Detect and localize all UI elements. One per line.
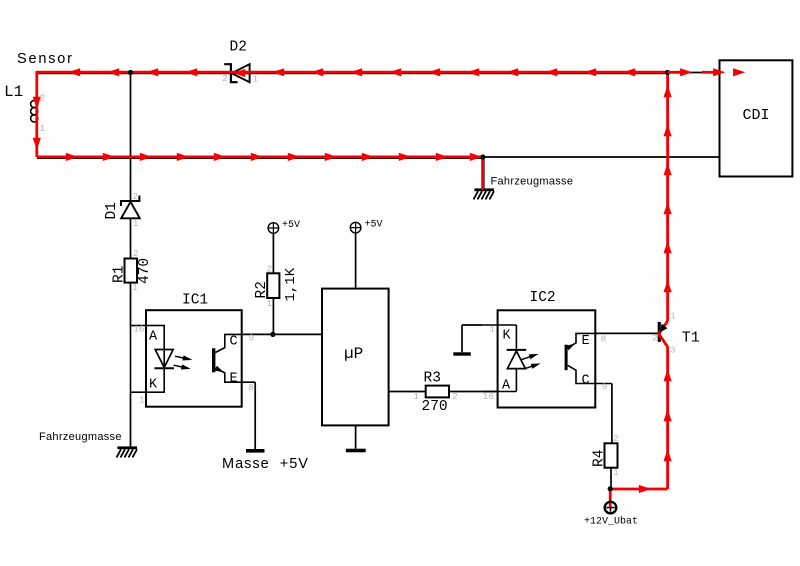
svg-text:C: C xyxy=(582,374,590,389)
svg-text:C: C xyxy=(230,335,238,350)
resistor R4 xyxy=(592,433,620,478)
svg-text:R4: R4 xyxy=(592,450,608,467)
wire black: R3 to IC2 pin A xyxy=(449,391,498,393)
current arrows: into CDI xyxy=(668,68,746,76)
svg-text:Sensor: Sensor xyxy=(17,51,74,67)
current arrows: +12V feed (rightward) xyxy=(639,485,651,493)
svg-text:2: 2 xyxy=(613,433,619,444)
svg-text:1: 1 xyxy=(133,218,139,229)
wire black: IC1 C to uP xyxy=(243,333,322,335)
svg-text:D2: D2 xyxy=(230,40,247,56)
wire black: IC1 pin K to ground xyxy=(130,392,132,446)
node: R2 / IC1 C junction xyxy=(270,332,275,337)
node: top D1 junction xyxy=(128,70,133,75)
inductor L1 xyxy=(4,83,46,134)
wire black: sensor top wire underlay xyxy=(37,73,668,75)
wire black: ground drop underlay xyxy=(483,158,485,189)
wire black: uP to R3 xyxy=(389,391,426,393)
svg-text:270: 270 xyxy=(422,399,448,415)
wire black: top to D1 xyxy=(130,73,132,202)
svg-text:CDI: CDI xyxy=(743,107,770,124)
wire black: R4 to +12V node xyxy=(610,468,612,489)
svg-text:E: E xyxy=(230,372,238,387)
svg-text:16: 16 xyxy=(483,391,495,402)
svg-text:A: A xyxy=(502,379,511,394)
transistor T1 xyxy=(652,311,700,356)
current arrows: left vertical (downward) xyxy=(33,97,41,150)
svg-text:470: 470 xyxy=(137,258,153,284)
svg-text:E: E xyxy=(582,334,590,349)
svg-text:1: 1 xyxy=(413,391,419,402)
wire black: Fahrzeugmasse junction to CDI xyxy=(483,156,720,158)
svg-text:8: 8 xyxy=(248,382,254,393)
ground Fahrzeugmasse (IC1 K) xyxy=(39,431,137,457)
resistor R2 1,1K xyxy=(254,264,299,310)
svg-text:A: A xyxy=(149,330,158,345)
svg-text:Fahrzeugmasse: Fahrzeugmasse xyxy=(491,176,574,188)
node: top right junction xyxy=(665,70,670,75)
svg-text:8: 8 xyxy=(601,334,607,345)
wire black: sensor bottom wire underlay xyxy=(37,157,483,159)
svg-text:2: 2 xyxy=(133,191,139,202)
node: Fahrzeugmasse junction xyxy=(480,154,485,159)
supply +5V (left) xyxy=(268,220,300,233)
svg-text:R3: R3 xyxy=(424,371,441,387)
resistor R3 270 xyxy=(413,371,458,416)
svg-text:IC1: IC1 xyxy=(182,293,208,309)
CDI box xyxy=(720,60,793,176)
svg-text:2: 2 xyxy=(267,264,273,275)
supply +12V_Ubat circle outline xyxy=(605,502,617,514)
svg-text:K: K xyxy=(149,378,158,393)
supply +5V (uP) xyxy=(350,220,382,233)
svg-text:R1: R1 xyxy=(112,266,128,283)
svg-text:T1: T1 xyxy=(682,330,700,347)
resistor R1 470 xyxy=(112,248,154,293)
wire red: right vertical upper (to T1) xyxy=(659,73,668,334)
wire red: sensor top wire xyxy=(37,71,668,74)
svg-text:µP: µP xyxy=(344,345,363,363)
wire red: drop to Fahrzeugmasse xyxy=(481,157,484,190)
wire red: left vertical through L1 xyxy=(35,71,38,157)
LED inside IC2 xyxy=(507,350,542,369)
svg-text:2: 2 xyxy=(133,248,139,259)
svg-text:1: 1 xyxy=(253,74,259,85)
wire black: R1 to IC1 pin A xyxy=(130,283,132,326)
wire black: top junction to CDI xyxy=(668,72,720,74)
svg-text:1: 1 xyxy=(613,467,619,478)
svg-text:IC2: IC2 xyxy=(530,290,556,306)
ground (IC1 E, Masse) xyxy=(246,449,265,453)
svg-text:9: 9 xyxy=(249,333,255,344)
phototransistor inside IC1 xyxy=(212,333,255,394)
wire black: IC2 C to R4 xyxy=(611,384,613,444)
ground (uP) xyxy=(346,449,366,453)
optocoupler IC2 xyxy=(483,290,596,408)
svg-text:1: 1 xyxy=(40,123,46,134)
label Masse +5V xyxy=(222,456,309,472)
current arrows: top wire (leftward) xyxy=(68,68,635,77)
svg-text:R2: R2 xyxy=(254,281,270,298)
current arrows: right vertical (upward) xyxy=(664,85,672,461)
wire black: IC1 E to Masse ground xyxy=(254,382,256,449)
supply +12V_Ubat xyxy=(584,502,638,528)
wire red: right vertical lower (from T1 to +12V) xyxy=(610,334,667,508)
LED inside IC1 xyxy=(155,350,193,372)
svg-text:D1: D1 xyxy=(104,202,120,219)
svg-text:1: 1 xyxy=(670,311,676,322)
svg-text:Fahrzeugmasse: Fahrzeugmasse xyxy=(39,431,122,443)
svg-text:2: 2 xyxy=(222,73,228,84)
diode D2 (zener) xyxy=(222,40,259,85)
diode D1 (zener) xyxy=(104,191,140,229)
ground Fahrzeugmasse (sensor return) xyxy=(474,176,574,200)
wire black: D1 to R1 xyxy=(130,218,132,258)
svg-text:1: 1 xyxy=(267,298,273,309)
phototransistor inside IC2 xyxy=(565,333,612,392)
svg-text:Masse +5V: Masse +5V xyxy=(222,456,309,472)
svg-text:16: 16 xyxy=(133,324,145,335)
wire black: IC2 pin K to ground xyxy=(462,325,483,352)
node: +12V junction xyxy=(608,486,613,491)
wire black: uP bottom to ground xyxy=(355,425,357,448)
wire black: +5V to R2 xyxy=(272,234,274,274)
svg-text:1: 1 xyxy=(139,395,145,406)
svg-text:9: 9 xyxy=(602,382,608,393)
transistor T1 emitter arrowhead xyxy=(660,324,668,333)
svg-text:2: 2 xyxy=(652,333,658,344)
svg-text:+5V: +5V xyxy=(282,220,300,231)
current arrows: bottom wire (rightward) xyxy=(66,153,482,161)
svg-text:1: 1 xyxy=(132,282,138,293)
wire black: R2 to node xyxy=(272,298,274,334)
svg-text:3: 3 xyxy=(670,345,676,356)
svg-text:+5V: +5V xyxy=(365,220,383,231)
svg-text:L1: L1 xyxy=(4,83,23,101)
wire black: IC2 E to T1 base xyxy=(595,332,657,334)
wire black: +5V to uP top xyxy=(355,233,357,289)
wire red: sensor bottom wire xyxy=(37,155,483,158)
svg-text:K: K xyxy=(503,329,512,344)
svg-text:+12V_Ubat: +12V_Ubat xyxy=(584,516,638,528)
optocoupler IC1 xyxy=(131,293,242,407)
svg-text:1,1K: 1,1K xyxy=(283,267,299,301)
svg-text:2: 2 xyxy=(452,391,458,402)
microprocessor uP xyxy=(322,289,389,426)
label Sensor xyxy=(17,51,74,67)
svg-text:1: 1 xyxy=(489,324,495,335)
ground (IC2 K) xyxy=(453,352,471,355)
